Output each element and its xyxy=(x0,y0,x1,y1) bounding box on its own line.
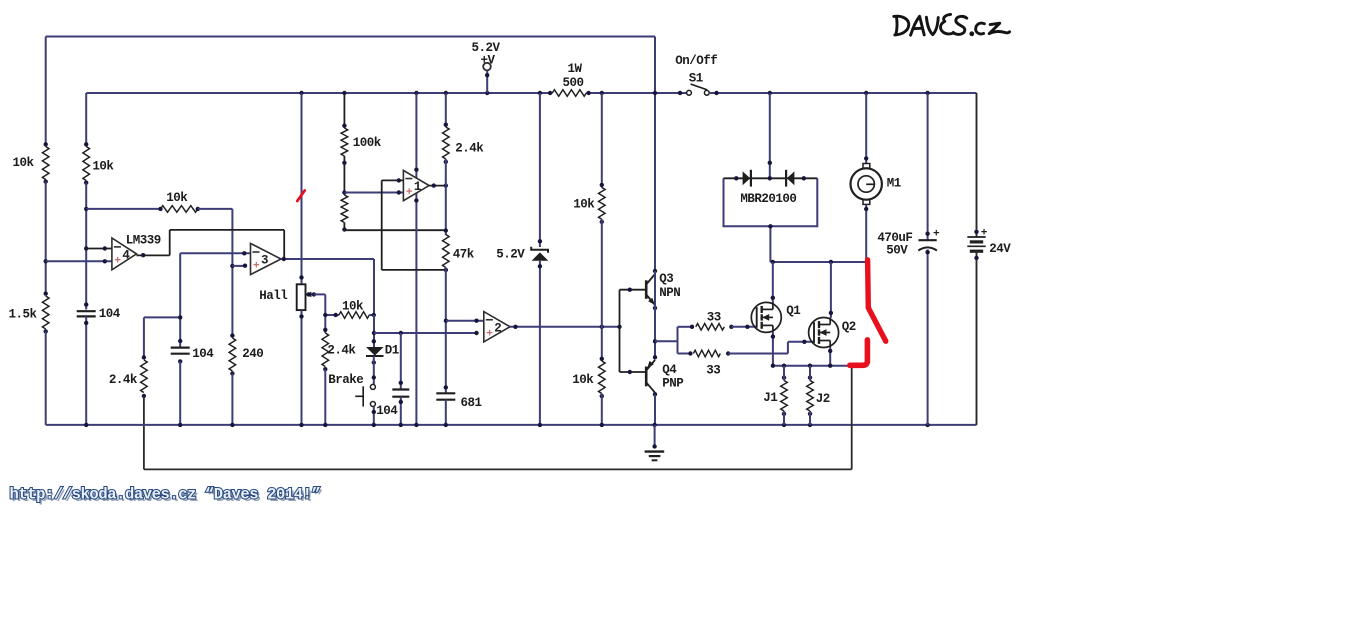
label M1 xyxy=(887,176,901,190)
wire op-out bus y=230 xyxy=(170,229,285,231)
switch S1 contacts xyxy=(687,90,710,95)
diode MBR left xyxy=(724,170,818,187)
svg-text:PNP: PNP xyxy=(662,377,683,391)
diode MBR right xyxy=(786,170,806,187)
wire hysteresis node xyxy=(342,223,346,232)
text URL daves.cz xyxy=(10,486,323,506)
mark red slash (hand annotation) xyxy=(297,191,304,202)
wire x=601.8 mid xyxy=(601,219,603,361)
op-amp U1 LM339 unit 3 xyxy=(251,243,282,274)
svg-text:Q1: Q1 xyxy=(786,304,800,318)
transistor Q2 MOSFET xyxy=(809,318,839,348)
label On/Off xyxy=(675,54,717,68)
node rail junction dots xyxy=(299,91,930,95)
motor M1 brush top xyxy=(863,164,870,169)
wire rail corner down x=86.2 xyxy=(85,93,87,147)
wire main rail y=93 left segment xyxy=(86,92,686,94)
resistor 2.4k (brake branch) xyxy=(322,328,329,372)
label 104 (left) xyxy=(99,307,121,321)
svg-text:24V: 24V xyxy=(989,242,1011,256)
svg-text:M1: M1 xyxy=(887,176,901,190)
wire 100k top stub xyxy=(342,93,346,128)
wire far-left vertical bottom xyxy=(45,331,47,425)
label Q3 xyxy=(659,272,673,286)
wire 2.4k-mid jog xyxy=(144,315,183,357)
svg-text:J2: J2 xyxy=(816,392,830,406)
wire sense return bottom xyxy=(144,468,852,470)
wire Q1 drain riser xyxy=(771,262,775,303)
wire op4-out up corner xyxy=(169,230,171,256)
wire cap681 to rail xyxy=(445,400,447,425)
svg-text:+: + xyxy=(114,255,121,267)
svg-text:4: 4 xyxy=(122,248,130,262)
label D1 xyxy=(385,343,399,357)
svg-text:100k: 100k xyxy=(353,136,382,150)
svg-text:+: + xyxy=(253,261,260,273)
svg-text:Q3: Q3 xyxy=(659,272,673,286)
svg-text:J1: J1 xyxy=(763,391,777,405)
svg-text:10k: 10k xyxy=(572,373,594,387)
wire ground rail y=424.9 xyxy=(46,424,977,426)
switch S1 lever xyxy=(691,84,706,89)
svg-text:2.4k: 2.4k xyxy=(327,344,356,358)
wire Q1 source drop xyxy=(771,332,775,365)
svg-text:240: 240 xyxy=(242,347,263,361)
wire cap104-2 to rail xyxy=(179,361,181,425)
MBR20100 box xyxy=(724,178,818,226)
wire top loop horizontal (V+ 24V top rail) xyxy=(46,36,655,38)
capacitor 104 (third) xyxy=(392,390,409,397)
label 500 xyxy=(563,76,584,90)
ground symbol xyxy=(645,452,665,461)
svg-text:104: 104 xyxy=(376,404,398,418)
wire op4 - input xyxy=(86,246,112,250)
label 240 xyxy=(242,347,263,361)
svg-text:Q4: Q4 xyxy=(662,363,677,377)
wire battery bottom xyxy=(974,251,978,425)
hall sensor body xyxy=(297,284,306,310)
mark red cut annotation lower xyxy=(850,340,868,366)
svg-text:+: + xyxy=(981,227,988,239)
svg-text:2: 2 xyxy=(494,321,502,335)
label 5.2V (top) xyxy=(472,41,501,55)
label 33 (Q2 gate) xyxy=(706,363,720,377)
svg-text:10k: 10k xyxy=(13,156,35,170)
wire 10k-a top stub xyxy=(601,93,603,188)
wire brake to rail xyxy=(372,407,376,425)
label LM339 xyxy=(126,234,161,248)
label 10k (wiper) xyxy=(342,299,364,313)
node ground rail dots xyxy=(84,423,930,427)
svg-text:33: 33 xyxy=(707,310,721,324)
svg-text:2.4k: 2.4k xyxy=(109,373,138,387)
wire sense return riser xyxy=(851,368,853,469)
wire Q2 source drop xyxy=(828,348,832,366)
switch Brake actuator xyxy=(355,386,363,406)
wire Q2 drain riser xyxy=(829,262,833,318)
resistor 2.4k (pullup) xyxy=(443,123,450,165)
wire far-left vertical mid xyxy=(44,182,48,294)
wire current-sense drop x=143.9 xyxy=(143,396,145,469)
resistor 2.4k (mid-left) xyxy=(141,355,148,398)
label 24V xyxy=(989,242,1011,256)
resistor 47k xyxy=(443,235,450,273)
wire cap104-3 to rail xyxy=(399,397,403,425)
wire emitters node xyxy=(653,271,657,357)
svg-text:Q2: Q2 xyxy=(842,320,856,334)
svg-text:Brake: Brake xyxy=(328,373,363,387)
svg-text:50V: 50V xyxy=(886,244,908,258)
svg-text:+: + xyxy=(486,328,493,340)
svg-text:1: 1 xyxy=(414,180,422,194)
wire hall top riser xyxy=(299,93,303,284)
label 10k (horizontal ref) xyxy=(166,191,188,205)
svg-text:5.2V: 5.2V xyxy=(496,247,525,261)
wire MBR bottom drop xyxy=(768,224,772,262)
wire top loop left vertical xyxy=(45,37,47,145)
wire op1 output xyxy=(429,183,448,187)
svg-text:On/Off: On/Off xyxy=(675,54,717,68)
svg-text:33: 33 xyxy=(706,363,720,377)
resistor R 10k (second) xyxy=(83,142,90,185)
label Hall xyxy=(259,289,287,303)
wire op3 - input riser x=180.2 xyxy=(179,253,181,347)
label MBR20100 xyxy=(740,192,796,206)
wire 2.4k-pullup top stub xyxy=(445,93,447,127)
wire 33a to Q1 gate xyxy=(731,325,756,329)
resistor 10k (upper driver) xyxy=(599,183,606,224)
wire cap104-3 riser xyxy=(399,333,403,390)
svg-text:LM339: LM339 xyxy=(126,234,161,248)
wire right vertical x=655 (top loop down to Q3 collector) xyxy=(654,37,656,272)
wire gate node branch xyxy=(655,327,693,354)
label 5.2V (zener) xyxy=(496,247,525,261)
switch Brake contacts xyxy=(370,384,375,406)
wire 100k mid xyxy=(342,156,346,195)
wire op4 output xyxy=(137,253,170,257)
wire op1 + input xyxy=(344,190,403,194)
wire Q4 collector to rail xyxy=(654,394,656,425)
resistor 10k (horizontal ref) xyxy=(158,206,200,213)
svg-text:2.4k: 2.4k xyxy=(455,141,484,155)
label 50V xyxy=(886,244,908,258)
label 10k (second) xyxy=(92,159,114,173)
mark red cut annotation upper xyxy=(868,260,886,341)
label 100k xyxy=(353,136,382,150)
svg-text:10k: 10k xyxy=(166,191,188,205)
svg-text:10k: 10k xyxy=(573,197,595,211)
op-amp U1 LM339 unit 4 xyxy=(112,238,137,270)
svg-text:Hall: Hall xyxy=(259,289,287,303)
transistor Q3 NPN xyxy=(646,269,657,310)
wire motor top xyxy=(864,93,868,164)
motor M1 brush bottom xyxy=(863,200,870,205)
wire zener top xyxy=(538,93,542,247)
svg-text:10k: 10k xyxy=(342,299,364,313)
wire op3 output xyxy=(281,257,374,261)
wire pullup to op1-out node xyxy=(445,159,447,235)
wire base riser x=620 xyxy=(619,290,621,372)
wire motor bottom xyxy=(864,204,868,262)
wire zener bottom xyxy=(538,261,542,425)
resistor 10k (wiper) xyxy=(323,312,376,319)
label 104 (third) xyxy=(376,404,398,418)
svg-text:NPN: NPN xyxy=(659,286,680,300)
wire x=374 chain upper xyxy=(372,315,376,347)
resistor 240 xyxy=(229,333,236,375)
resistor J1 (shunt) xyxy=(781,375,788,416)
wire op1 - feedback xyxy=(382,178,446,270)
label Q2 xyxy=(842,320,856,334)
wire Q4 base xyxy=(620,370,647,374)
resistor 500 1W (series in rail) xyxy=(548,90,591,97)
wire MBR riser xyxy=(768,93,772,178)
wire hall wiper to 10k xyxy=(314,294,325,333)
wire 10k-ref to x=232 corner xyxy=(198,209,235,336)
resistor R 10k (far left) xyxy=(42,142,49,184)
label 2.4k (mid-left) xyxy=(109,373,138,387)
svg-text:S1: S1 xyxy=(689,72,703,86)
op-amp U1 LM339 unit 2 xyxy=(484,312,510,342)
label 10k (lower driver) xyxy=(572,373,594,387)
resistor 10k (lower driver) xyxy=(599,357,606,399)
resistor 33 (Q2 gate) xyxy=(688,350,730,357)
label 10k (upper driver) xyxy=(573,197,595,211)
wire op2 - input xyxy=(446,319,484,323)
svg-text:MBR20100: MBR20100 xyxy=(740,192,796,206)
wire 10k-ref left stub xyxy=(86,208,160,210)
svg-text:47k: 47k xyxy=(453,247,475,261)
wire 47k to cap681 xyxy=(444,268,449,394)
label Q1 xyxy=(786,304,800,318)
label Q4 xyxy=(662,363,677,377)
label S1 xyxy=(689,72,703,86)
label 47k xyxy=(453,247,475,261)
hall wiper arrow xyxy=(306,292,316,298)
wire op2 output xyxy=(510,325,622,329)
wire hall bottom to rail xyxy=(299,310,303,425)
wire source bus y=365.7 xyxy=(771,364,853,368)
resistor 33 (Q1 gate) xyxy=(690,324,734,331)
svg-text:D1: D1 xyxy=(385,343,399,357)
wire 10k-b to rail xyxy=(601,394,603,425)
wire D1 to brake switch xyxy=(372,356,376,384)
label NPN xyxy=(659,286,680,300)
label 104 (second) xyxy=(192,347,214,361)
label +V xyxy=(481,54,496,68)
transistor Q1 MOSFET xyxy=(751,302,781,332)
wire Q3 base xyxy=(620,288,647,292)
wire 2.4k-brake to rail xyxy=(324,369,326,425)
wire cap470 bottom xyxy=(925,250,929,425)
battery 24V xyxy=(967,227,988,251)
svg-text:500: 500 xyxy=(563,76,584,90)
label PNP xyxy=(662,377,683,391)
wire x=86.2 vertical mid xyxy=(84,183,88,310)
resistor 100k-lower (hysteresis) xyxy=(341,195,348,223)
wire cap470 top xyxy=(925,93,929,240)
wire ground stub xyxy=(652,425,656,449)
label 2.4k (pullup) xyxy=(455,141,484,155)
svg-text:http://skoda.daves.cz “Daves 2: http://skoda.daves.cz “Daves 2014!” xyxy=(10,486,321,504)
svg-text:104: 104 xyxy=(99,307,121,321)
label 10k (far left) xyxy=(13,156,35,170)
transistor Q4 PNP xyxy=(646,355,657,396)
motor M1 body xyxy=(851,168,882,199)
capacitor 104 (second) xyxy=(171,339,190,364)
svg-text:+: + xyxy=(406,187,413,199)
wire op3 output down x=374 xyxy=(373,259,375,315)
wire 240 to ground rail xyxy=(231,374,233,425)
wire op3-out riser xyxy=(283,230,285,259)
label 33 (Q1 gate) xyxy=(707,310,721,324)
node A junction xyxy=(444,228,448,232)
logo DAVES.cz xyxy=(894,14,1010,36)
wire x=86.2 vertical bottom xyxy=(84,316,88,425)
diode zener 5.2V xyxy=(531,247,548,261)
label 2.4k (brake branch) xyxy=(327,344,356,358)
op-amp U1 LM339 unit 1 xyxy=(403,170,429,200)
wire J2 to rail xyxy=(809,366,811,425)
svg-text:+: + xyxy=(933,229,940,241)
capacitor 470uF 50V xyxy=(918,229,940,251)
svg-text:3: 3 xyxy=(261,254,269,268)
wire op4 + input xyxy=(46,259,112,263)
svg-text:1.5k: 1.5k xyxy=(9,308,38,322)
label Brake xyxy=(328,373,363,387)
wire op3 - input xyxy=(180,251,250,255)
wire op3 + input stub xyxy=(232,264,247,268)
wire node-A horizontal y=230 xyxy=(344,229,445,231)
power terminal +V 5.2V circle xyxy=(483,63,491,71)
resistor J2 (shunt) xyxy=(807,375,814,416)
svg-text:10k: 10k xyxy=(92,159,114,173)
wire power branch x=416.4 xyxy=(414,93,418,425)
wire J1 to rail xyxy=(783,366,785,425)
resistor 1.5k xyxy=(42,291,49,333)
wire drain bus y=262 xyxy=(770,260,866,264)
svg-text:681: 681 xyxy=(461,396,482,410)
diode D1 xyxy=(366,339,384,365)
wire +V stub xyxy=(485,71,489,94)
label 1W xyxy=(568,62,583,76)
label J2 xyxy=(816,392,830,406)
label 1.5k xyxy=(9,308,38,322)
resistor 100k xyxy=(341,128,348,156)
label J1 xyxy=(763,391,777,405)
wire op2 + feed xyxy=(374,331,479,335)
label 470uF xyxy=(877,231,912,245)
svg-text:+V: +V xyxy=(481,54,496,68)
svg-text:1W: 1W xyxy=(568,62,583,76)
wire main rail y=93 right segment (after S1) xyxy=(710,92,977,94)
label 681 xyxy=(461,396,482,410)
svg-text:104: 104 xyxy=(192,347,214,361)
capacitor 681 xyxy=(436,393,455,399)
wire 33b to Q2 gate xyxy=(728,340,814,354)
wire battery top xyxy=(974,93,978,237)
capacitor 104 (left) xyxy=(77,311,96,316)
